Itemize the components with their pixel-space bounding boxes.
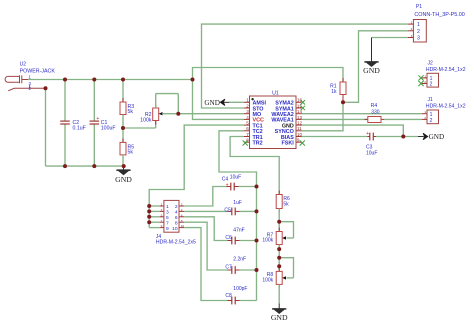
wire jack sleeve to ground rail [45,88,47,166]
wire P1 pin3 to ground [372,37,409,39]
svg-text:6: 6 [246,126,249,131]
svg-text:C6: C6 [225,235,232,241]
svg-text:TR2: TR2 [253,141,263,147]
wire TC1 to J4 common [149,125,244,228]
ground GND under P1 [364,38,378,67]
junction R2 wiper [176,112,180,116]
U1 pin 1 AMSI [244,101,250,103]
svg-text:2: 2 [430,118,433,124]
svg-text:P1: P1 [416,4,422,10]
svg-text:HDR-M-2.54_1x2: HDR-M-2.54_1x2 [426,67,466,73]
svg-text:2.2nF: 2.2nF [233,257,246,263]
svg-text:7: 7 [246,132,249,137]
connector P1 body [413,20,426,43]
svg-text:16: 16 [297,98,303,103]
svg-text:4: 4 [175,210,178,216]
svg-text:+: + [226,182,229,188]
svg-text:100k: 100k [262,238,273,244]
svg-text:1: 1 [417,22,420,28]
svg-text:0.1uF: 0.1uF [73,125,86,131]
svg-text:+: + [366,131,369,137]
svg-text:1: 1 [166,204,169,210]
svg-text:7: 7 [161,219,163,223]
svg-text:3: 3 [246,109,249,114]
svg-text:8: 8 [175,220,178,226]
potentiometer R2 [123,127,156,129]
junction C7 bus [255,268,259,272]
connector J2 body [427,73,439,87]
junction C1 bottom [92,164,96,168]
svg-text:7: 7 [166,220,169,226]
wire R2 wiper to U1 MO [178,113,244,115]
svg-text:3: 3 [166,210,169,216]
no-connect X J2 pin2 [418,81,423,86]
svg-text:GND: GND [204,99,220,107]
svg-text:4: 4 [181,208,183,212]
svg-text:8: 8 [181,219,183,223]
svg-text:2: 2 [175,204,178,210]
junction C5 bus [255,209,259,213]
svg-text:2: 2 [430,82,433,88]
junction C3 node [401,135,405,139]
svg-text:2: 2 [181,203,183,207]
no-connect X U1 pin9 FSKI [300,140,305,145]
resistor R5 [122,128,124,142]
wire SYNCO node to P1 pin2 [302,102,344,131]
potentiometer R8 [278,267,280,271]
svg-text:U2: U2 [20,62,27,68]
svg-text:100uF: 100uF [101,125,116,131]
junction R8 wiper tie [277,256,281,260]
junction R7 wiper tie [277,220,281,224]
IC U1 function generator body [250,96,297,149]
svg-text:J2: J2 [428,60,434,66]
U1 pin 9 FSKI [296,141,302,143]
svg-text:5k: 5k [128,109,134,115]
svg-text:5: 5 [166,215,169,221]
svg-text:47nF: 47nF [233,228,244,234]
wire GND flag to U1 pin1 [229,101,244,103]
svg-text:3: 3 [411,34,413,38]
svg-text:HDR-M-2.54_1x2: HDR-M-2.54_1x2 [426,104,466,110]
U1 pin 6 TC2 [244,130,250,132]
J2 pin stubs [422,77,427,79]
wire U1 GND pin12 to C3 node [302,125,404,136]
connector J4 body [164,200,179,232]
svg-text:330: 330 [371,109,380,115]
junction C2 top [63,78,67,82]
resistor R6 [278,191,280,195]
wire VCC riser to R1 [193,68,344,83]
junction J4 left column [147,220,151,224]
wire C3 to GND flag [376,136,418,138]
svg-text:U1: U1 [272,91,279,97]
svg-text:2: 2 [417,29,420,35]
junction VCC rail end [191,78,195,82]
U1 pin 15 SYMA1 [296,107,302,109]
wire TC2 to cap bus [219,131,257,301]
junction C2 bottom [63,164,67,168]
junction jack sleeve [44,86,48,90]
svg-text:9: 9 [166,226,169,232]
junction R1 bottom [341,100,345,104]
junction J4 left column [147,209,151,213]
svg-text:6: 6 [181,213,183,217]
J4 left pin stubs and wires [149,205,160,207]
svg-text:2: 2 [411,27,413,31]
svg-text:1: 1 [411,21,413,25]
J1 pin stubs [422,113,427,115]
junction C4 bus [255,185,259,189]
ground GND under R5 [116,166,130,175]
wire VCC drop to U1 pin4 [193,80,245,120]
svg-text:2: 2 [424,116,426,120]
svg-text:5: 5 [246,121,249,126]
wire WAVEA2 to J1 pin1 [302,113,422,115]
svg-text:C4: C4 [222,177,229,183]
svg-text:CONN-TH_3P-P5.00: CONN-TH_3P-P5.00 [414,12,464,18]
capacitor C5 [184,210,227,212]
svg-text:2: 2 [246,103,249,108]
svg-text:1: 1 [424,74,426,78]
svg-text:100pF: 100pF [233,286,247,292]
no-connect X J2 pin1 [418,75,423,80]
svg-text:10: 10 [181,224,185,228]
J4 right pin stubs [179,205,184,207]
U1 pin 4 VCC [244,118,250,120]
svg-text:11: 11 [297,126,302,131]
ground GND under R8 [272,304,286,314]
svg-text:C5: C5 [224,207,231,213]
svg-text:100k: 100k [140,118,152,124]
svg-text:9: 9 [161,224,163,228]
U1 pin 2 STO [244,107,250,109]
wire R8 to ground [278,284,280,303]
P1 pin stubs [408,23,413,25]
svg-text:10uF: 10uF [366,150,377,156]
capacitor C6 [184,217,227,241]
svg-text:C8: C8 [225,293,232,299]
U1 pin 14 WAVEA2 [296,113,302,115]
wire ground rail [46,165,124,167]
wire VCC rail [28,79,193,81]
U1 pin 12 GND [296,124,302,126]
svg-text:J1: J1 [428,97,434,103]
svg-text:5k: 5k [128,150,134,156]
svg-text:5k: 5k [283,202,289,208]
svg-text:GND: GND [115,175,132,184]
svg-text:10uF: 10uF [230,175,241,181]
svg-text:GND: GND [429,133,445,141]
svg-text:C7: C7 [225,264,232,270]
svg-text:1k: 1k [331,89,337,95]
U1 pin 3 MO [244,113,250,115]
svg-text:R4: R4 [371,103,378,109]
capacitor C3 [302,136,368,138]
svg-text:10: 10 [172,226,178,232]
svg-text:+: + [96,116,99,122]
svg-text:1: 1 [246,98,249,103]
junction R3 bottom node [121,126,125,130]
U1 pin 7 TR1 [244,136,250,138]
potentiometer R7 [278,228,280,232]
no-connect X U1 pin16 SYMA2 [301,100,305,104]
no-connect X U1 pin15 SYMA1 [301,106,305,110]
connector J1 body [427,110,439,124]
svg-text:1: 1 [161,203,163,207]
junction C6 bus [255,239,259,243]
svg-text:9: 9 [297,138,300,143]
power jack U2 [5,75,45,91]
svg-text:FSKI: FSKI [282,141,295,147]
junction J4 left column [147,215,151,219]
svg-text:1uF: 1uF [233,200,242,206]
junction ground rail end [122,164,126,168]
svg-text:3: 3 [417,36,420,42]
wire R7 to R8 [278,245,280,272]
no-connect X U1 pin8 TR2 [243,140,248,145]
U1 pin 11 SYNCO [296,130,302,132]
net flag GND right [418,133,428,139]
svg-text:2: 2 [424,80,426,84]
svg-text:6: 6 [175,215,178,221]
capacitor C4 [184,187,226,207]
wire STO to P1 pin1 [202,24,409,108]
U1 pin 10 BIAS [296,136,302,138]
svg-text:100k: 100k [262,278,273,284]
U1 pin 5 TC1 [244,124,250,126]
resistor R4 [302,118,368,120]
wire R6 to R7 [278,209,280,232]
resistor R3 [122,80,124,103]
capacitor C2 [64,80,66,121]
U1 pin 13 WAVEA1 [296,118,302,120]
junction C1 top [92,78,96,82]
wire TR1 to R6 [230,137,279,195]
svg-text:GND: GND [271,313,288,322]
svg-text:HDR-M-2.54_2x5: HDR-M-2.54_2x5 [156,240,196,246]
svg-text:4: 4 [246,115,249,120]
junction below R7 [277,247,281,251]
svg-text:5: 5 [161,213,163,217]
capacitor C1 [93,80,95,121]
U1 pin 8 TR2 [244,141,250,143]
junction R3 top [121,78,125,82]
svg-text:POWER-JACK: POWER-JACK [20,68,56,74]
svg-text:3: 3 [161,208,163,212]
junction above R8 [277,264,281,268]
junction J4 left column [147,204,151,208]
svg-text:1: 1 [424,110,426,114]
capacitor C7 [184,222,227,270]
svg-text:GND: GND [363,66,380,75]
capacitor C8 [184,228,227,301]
U1 pin 16 SYMA2 [296,101,302,103]
resistor R1 [342,94,344,102]
